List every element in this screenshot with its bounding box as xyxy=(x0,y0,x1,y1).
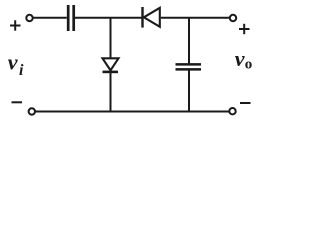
label vi (input voltage) xyxy=(8,49,24,79)
capacitor C1 (series, vertical plates) xyxy=(68,5,74,31)
node A junction (top of shunt diode D2) xyxy=(110,18,112,58)
svg-text:v: v xyxy=(235,46,245,71)
wire top rail from D1 to output terminal xyxy=(161,17,230,19)
wire bottom rail xyxy=(35,111,229,113)
label - (output negative) xyxy=(240,102,251,104)
input terminal circle top-left xyxy=(26,15,32,21)
wire from D2 cathode to bottom rail xyxy=(110,73,112,112)
svg-text:o: o xyxy=(245,56,253,72)
svg-text:v: v xyxy=(8,49,18,74)
label + (input positive) xyxy=(10,20,21,30)
label + (output positive) xyxy=(239,24,250,34)
output terminal circle top-right xyxy=(230,15,236,21)
output terminal circle bottom-right xyxy=(229,108,235,114)
diode D2 (shunt, triangle pointing down, cathode bar at bottom) xyxy=(103,58,119,72)
input terminal circle bottom-left xyxy=(29,108,35,114)
label - (input negative) xyxy=(12,101,23,103)
diode D1 (series, cathode bar on left, triangle pointing left) xyxy=(143,7,160,28)
wire top rail from C1 to diode D1 xyxy=(75,17,142,19)
label vo (output voltage) xyxy=(235,46,252,73)
svg-text:i: i xyxy=(19,62,24,79)
wire from C2 bottom plate to bottom rail xyxy=(188,71,190,112)
wire top rail from input terminal to capacitor C1 xyxy=(33,17,67,19)
capacitor C2 (shunt, horizontal plates) xyxy=(176,64,202,69)
node B junction (top of capacitor C2) xyxy=(188,18,190,64)
